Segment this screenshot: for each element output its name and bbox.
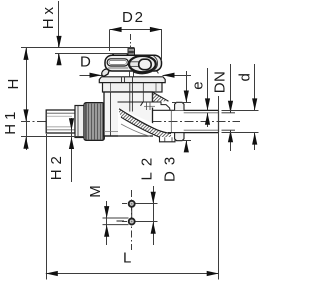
extension line handle-top (y=53.2) — [55, 53, 128, 55]
dimension L2 — [136, 152, 158, 245]
dimension H2 — [48, 118, 74, 182]
union nut (knurled) — [84, 103, 104, 141]
dimension D3 — [162, 71, 192, 182]
handle body — [105, 55, 162, 71]
centerline vertical (stem axis) — [130, 34, 132, 47]
valve body — [103, 83, 163, 136]
handle ball ring — [133, 72, 152, 74]
dimension M — [87, 185, 129, 245]
handle slot — [107, 59, 128, 66]
bottom hatched band — [119, 109, 171, 138]
dimension H — [5, 48, 29, 122]
svg-text:H2: H2 — [48, 151, 65, 180]
label l — [117, 220, 125, 222]
left pipe socket — [46, 110, 75, 133]
shoulder top line — [152, 109, 184, 111]
bottom white underlay — [118, 108, 171, 143]
mounting foot — [160, 137, 176, 142]
dimension L — [46, 96, 219, 280]
stem cap — [128, 49, 135, 55]
handle (side view) — [102, 54, 162, 77]
union bush — [75, 106, 84, 138]
right pipe (spigot) — [184, 110, 219, 132]
dimension D2 — [110, 9, 162, 61]
svg-text:D3: D3 — [162, 151, 179, 182]
svg-text:D: D — [80, 54, 91, 71]
svg-text:d: d — [237, 73, 254, 81]
shoulder bottom line — [168, 132, 184, 134]
centerline vertical (hole axis, bottom) — [131, 190, 133, 250]
connector-pipe joint — [170, 110, 172, 132]
release lever lip at left — [102, 68, 110, 76]
top hatched wedge — [152, 92, 168, 102]
top hump under stem — [112, 54, 129, 56]
mounting holes (bottom view) — [122, 201, 142, 225]
dimension d — [222, 64, 259, 150]
bead top — [175, 102, 184, 110]
sectioned end connector (right of body) — [104, 92, 184, 143]
svg-text:DN: DN — [212, 71, 229, 94]
dimension H1 — [2, 108, 84, 150]
dimension D — [80, 54, 192, 78]
right cap inner line — [154, 56, 158, 71]
svg-text:L2: L2 — [139, 152, 156, 181]
dimension Hx — [40, 1, 62, 65]
body thread behind nut — [105, 107, 111, 133]
centerline horizontal (pipe axis) — [21, 121, 104, 123]
bead bottom — [175, 132, 184, 140]
dimension DN — [212, 64, 235, 151]
svg-text:L: L — [123, 250, 131, 267]
svg-text:M: M — [87, 185, 104, 198]
seat trapezoid — [141, 102, 171, 110]
dimension e — [189, 68, 210, 127]
svg-text:D2: D2 — [122, 9, 145, 26]
extension line stem-top (y=47.9) — [21, 47, 135, 49]
inner bore curve (thin) — [121, 124, 150, 136]
svg-text:e: e — [189, 81, 206, 89]
svg-text:Hx: Hx — [40, 3, 57, 29]
bonnet flange — [99, 77, 165, 83]
svg-text:H: H — [5, 79, 22, 90]
svg-text:H1: H1 — [2, 108, 19, 135]
